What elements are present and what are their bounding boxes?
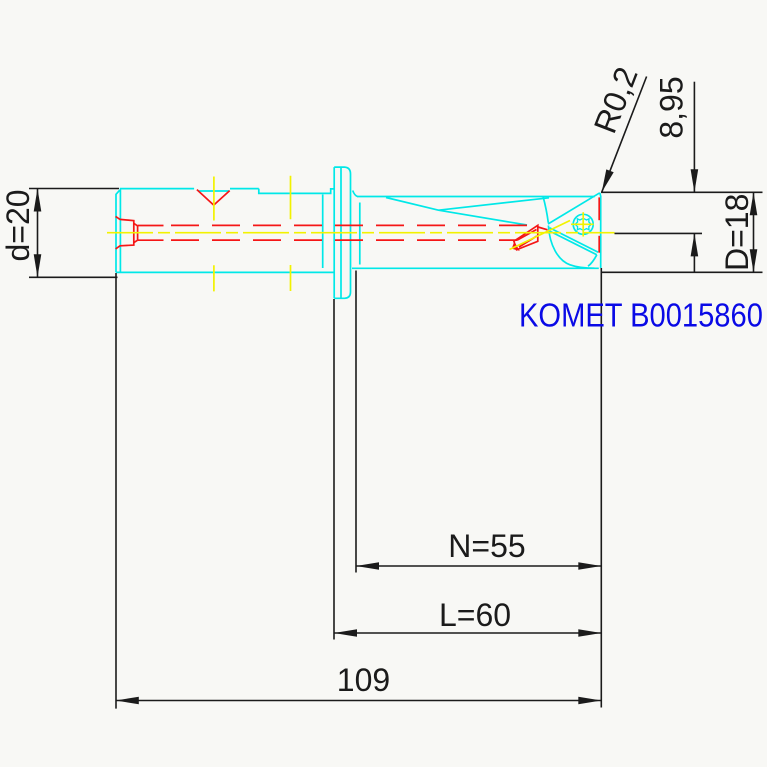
N=55 ext left: [355, 271, 357, 573]
shank top edge: [120, 189, 334, 194]
coolant hidden line top: [171, 224, 538, 226]
arrow D=18 up: [750, 192, 758, 215]
countersink bell: [116, 216, 134, 249]
V notch chord: [198, 190, 229, 192]
svg-text:d=20: d=20: [0, 189, 36, 261]
D=18 dim line: [753, 192, 755, 272]
arrow d=20 down: [34, 254, 42, 277]
arrow 109 left: [116, 697, 139, 705]
small arc bottom right: [588, 255, 597, 266]
8,95 dim line upper: [693, 82, 695, 193]
8,95 dim line lower: [693, 233, 695, 272]
svg-text:L=60: L=60: [439, 597, 511, 633]
L=60 dim line: [334, 632, 601, 634]
D=18 ext top: [601, 191, 763, 193]
cutting edge to corner: [548, 193, 600, 224]
8,95 ext center: [615, 232, 703, 234]
screw cross vertical: [582, 212, 584, 236]
right ext shared: [600, 268, 602, 708]
arrow L=60 right: [578, 629, 601, 637]
shank end vertical: [322, 195, 324, 269]
shank bottom edge: [116, 271, 334, 273]
hole top solid line: [138, 225, 164, 227]
flange right edge rounded: [334, 167, 350, 298]
flute line B: [439, 198, 550, 210]
arrow L=60 left: [334, 629, 357, 637]
insert tick: [538, 227, 548, 230]
N=55 dim line: [356, 565, 601, 567]
countersink chamfer bottom: [134, 240, 138, 242]
arrow D=18 down: [750, 249, 758, 272]
109 ext left: [115, 273, 117, 709]
svg-text:N=55: N=55: [448, 528, 525, 564]
L=60 ext left: [333, 299, 335, 640]
shank left edge outer with chamfer: [116, 190, 120, 272]
vertical centerline 1: [213, 177, 215, 292]
neck step after flange: [353, 191, 358, 197]
D=18 ext bottom: [601, 271, 763, 273]
R0,2 leader: [602, 77, 647, 193]
arrow R0,2 leader: [602, 169, 614, 192]
d=20 ext top: [29, 188, 119, 190]
tip face hidden dash top: [598, 197, 600, 220]
tip face hidden dash bottom: [598, 236, 600, 253]
svg-text:KOMET B0015860: KOMET B0015860: [519, 297, 763, 334]
torx screw outer circle: [573, 214, 593, 234]
vertical centerline 2: [290, 176, 292, 291]
arrow 109 right: [578, 697, 601, 705]
drill body top edge: [357, 196, 595, 198]
main horizontal centerline: [107, 232, 615, 234]
drill body bottom edge: [352, 267, 599, 269]
neck vertical at body junction: [359, 203, 361, 265]
arrow 8,95 up: [691, 233, 699, 256]
tip curve C: [543, 196, 548, 222]
insert axis diagonal: [510, 221, 571, 250]
arrow 8,95 down: [691, 169, 699, 192]
arrow d=20 up: [34, 189, 42, 212]
109 dim line: [116, 700, 601, 702]
cutting edge double line 2: [548, 230, 597, 254]
coolant hidden line bottom: [171, 239, 517, 241]
insert inner line 1: [517, 230, 537, 241]
flute arc to bottom: [548, 226, 594, 269]
d=20 ext bottom: [29, 276, 118, 278]
hole neck vertical: [137, 226, 139, 240]
cutting edge double line 1: [550, 228, 599, 253]
insert inner line 2: [519, 236, 537, 247]
shank left edge inner: [119, 189, 121, 273]
V notch: [197, 190, 230, 206]
arrow N=55 right: [578, 562, 601, 570]
d=20 dim line: [37, 189, 39, 278]
drill right edge: [599, 193, 602, 268]
svg-text:109: 109: [337, 662, 390, 698]
flute line A: [386, 198, 527, 226]
flange mid vertical: [340, 167, 342, 298]
torx star: [575, 218, 591, 230]
countersink chamfer top: [134, 223, 138, 226]
insert corner wedge: [513, 244, 518, 250]
insert outline: [514, 225, 538, 250]
hole bottom solid line: [138, 239, 164, 241]
svg-text:8,95: 8,95: [654, 76, 690, 138]
screw cross horizontal: [571, 223, 594, 225]
flange left vertical: [333, 167, 335, 298]
arrow N=55 left: [356, 562, 379, 570]
svg-text:D=18: D=18: [719, 194, 755, 271]
